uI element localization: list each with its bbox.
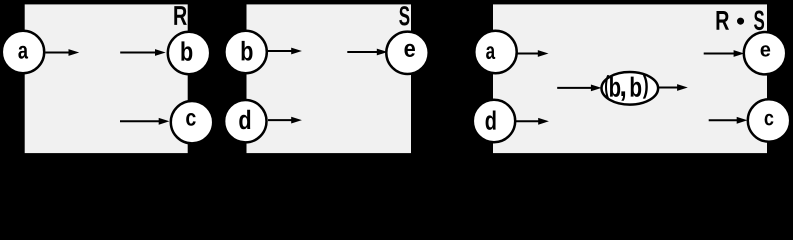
wire arrow A11 into pair node	[557, 87, 592, 89]
node c	[171, 101, 213, 143]
node pair (b, b)	[602, 72, 659, 105]
label R of R compose S	[717, 11, 729, 30]
wire arrow A12 from pair node	[658, 87, 678, 89]
wire arrow A5 into e	[347, 51, 378, 53]
node a3	[474, 31, 516, 73]
wire arrow A8 into e3	[704, 53, 735, 55]
label bullet of R compose S	[737, 18, 744, 25]
node d3	[473, 100, 515, 142]
wire arrow A2 into b	[120, 52, 156, 54]
wire arrow A7 from a3	[515, 53, 540, 55]
box R	[25, 4, 188, 153]
node b2	[224, 31, 266, 73]
node c3	[748, 99, 790, 141]
node a	[2, 31, 44, 73]
label R	[174, 6, 186, 25]
node e2	[386, 32, 428, 74]
node b	[168, 32, 210, 74]
node e3	[744, 32, 786, 74]
wire arrow A10 into c3	[709, 119, 739, 121]
box S	[247, 4, 412, 153]
wire arrow A3 into c	[120, 120, 160, 122]
node d2	[224, 100, 266, 142]
wire arrow A1 from a	[45, 52, 70, 54]
label S	[399, 6, 409, 25]
wire arrow A9 from d3	[516, 120, 540, 122]
box R compose S	[493, 4, 767, 153]
label S of R compose S	[754, 11, 764, 31]
wire arrow A6 from d2	[268, 119, 293, 121]
wire arrow A4 from b2	[268, 50, 293, 52]
